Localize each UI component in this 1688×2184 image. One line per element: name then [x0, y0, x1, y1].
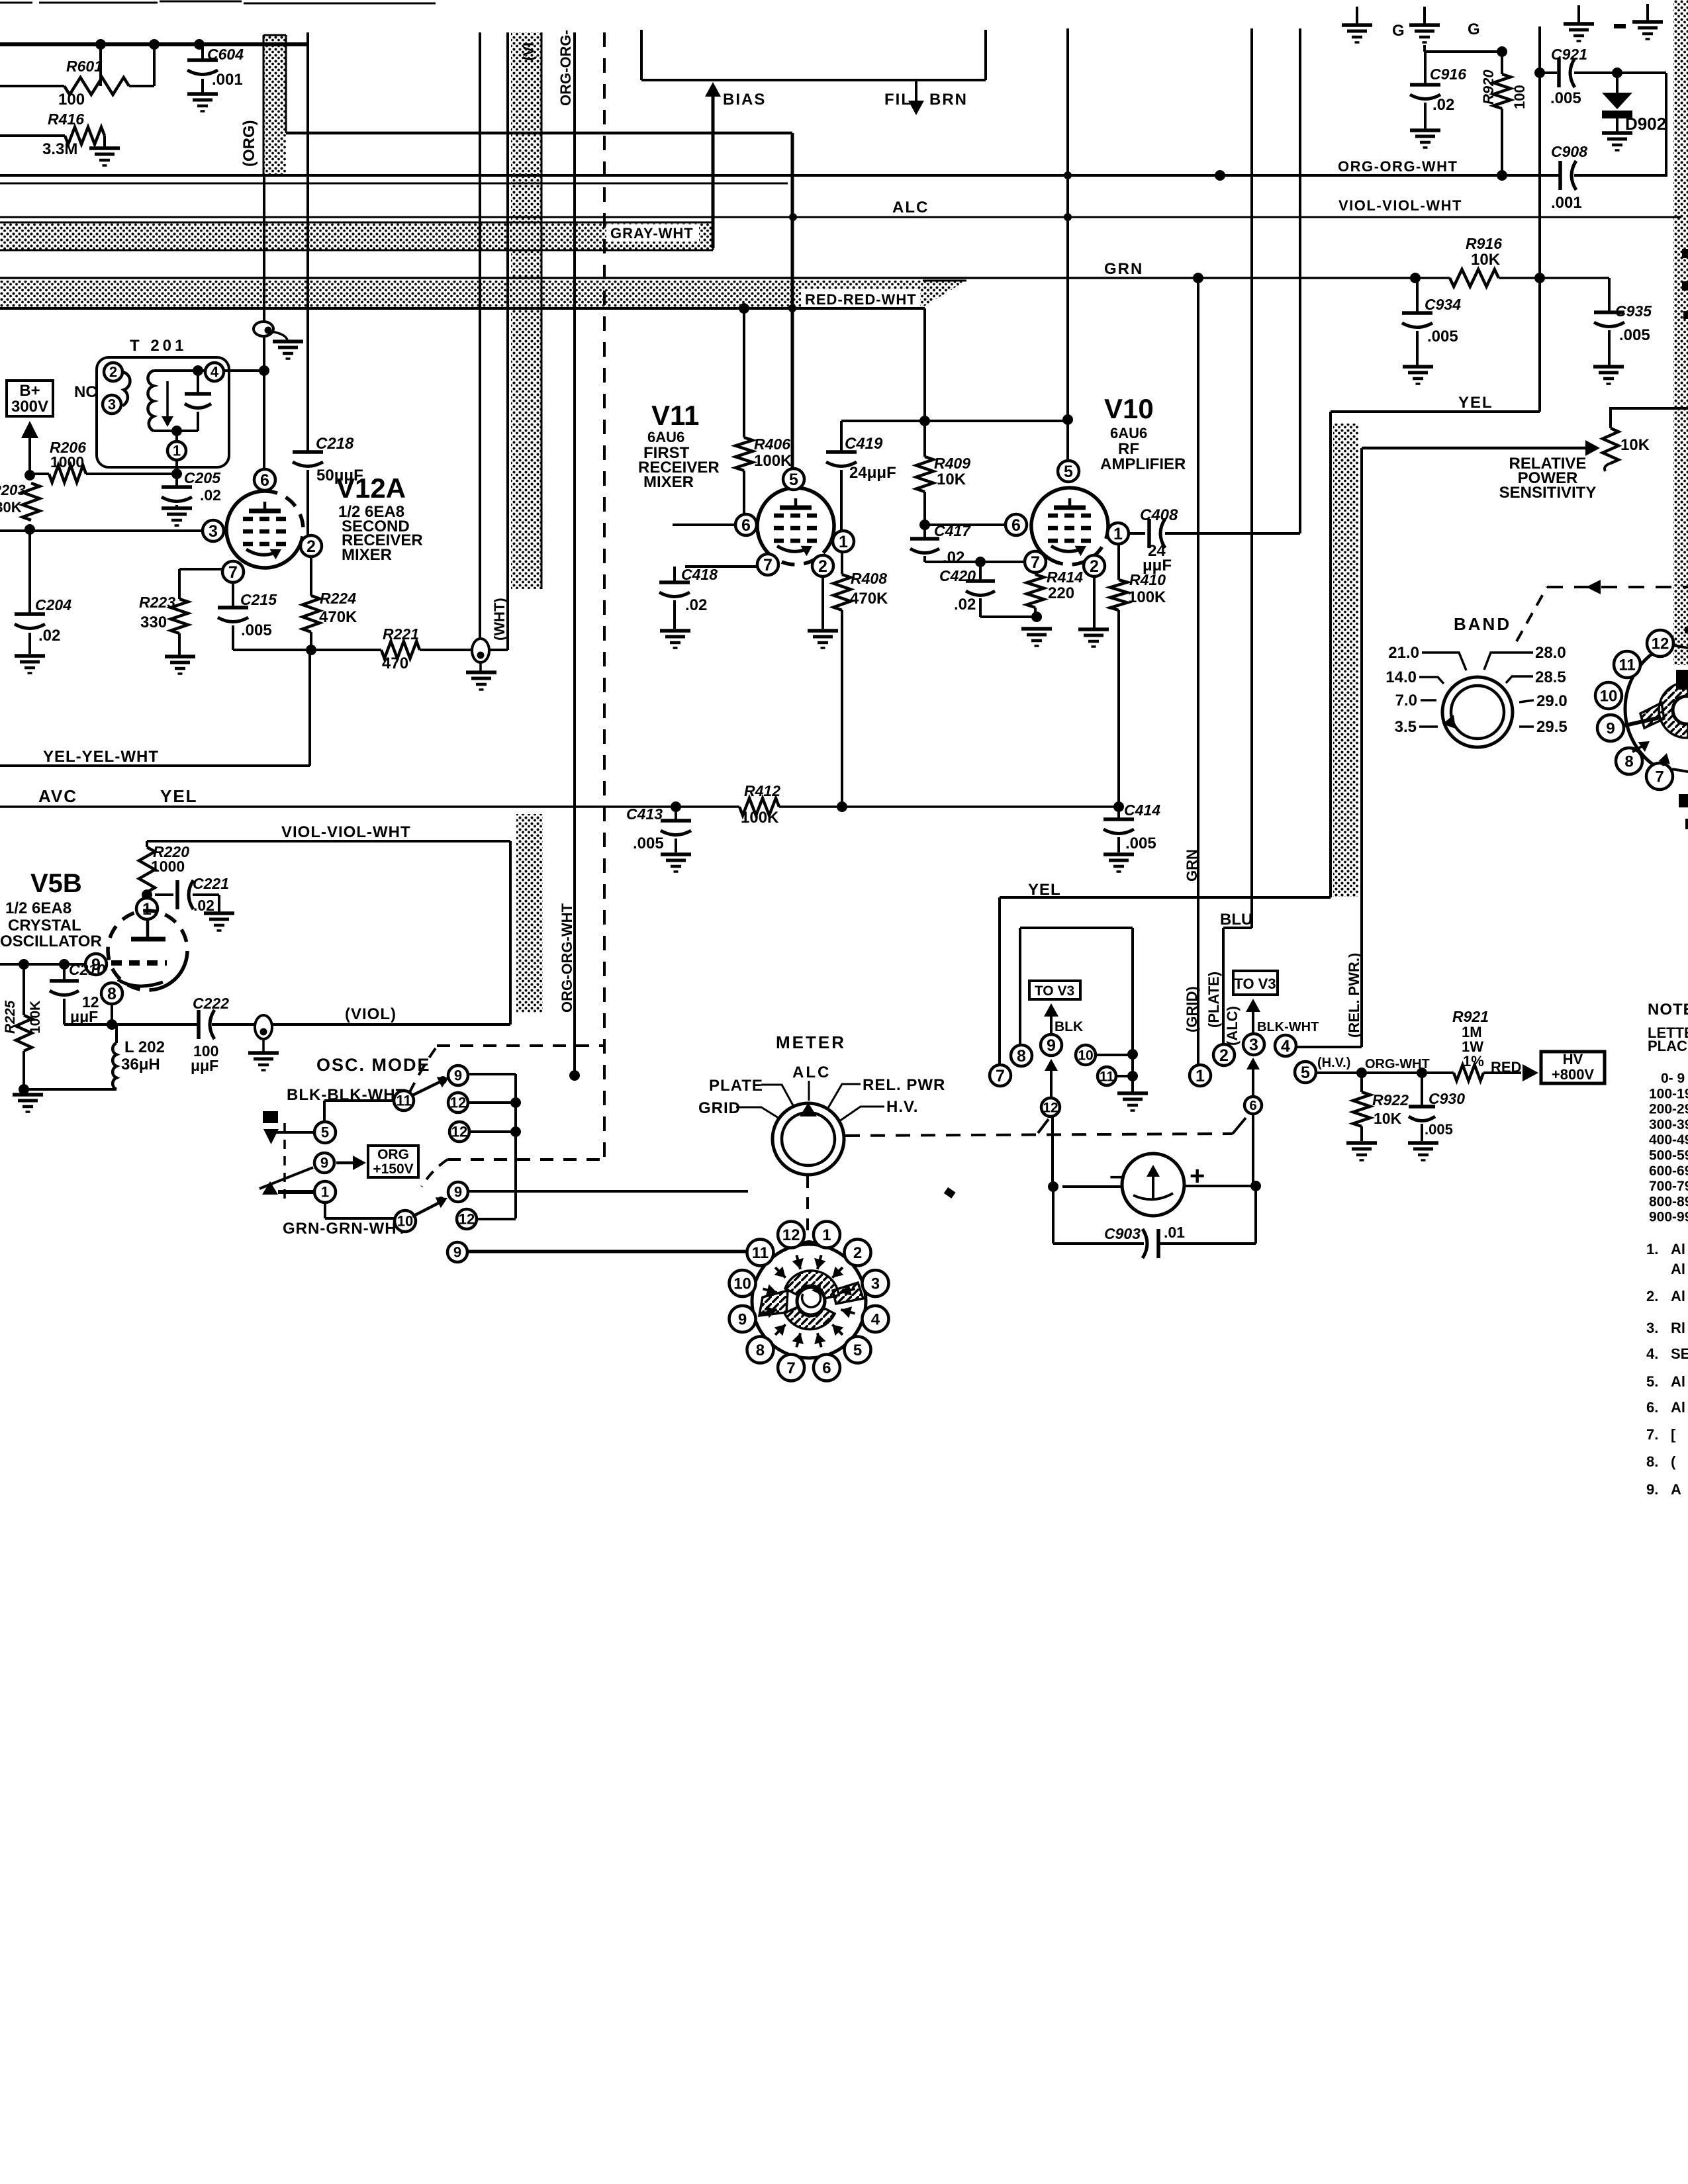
capacitor C930	[1421, 1073, 1423, 1107]
capacitor C414	[1117, 804, 1120, 819]
ground (C418)	[660, 629, 690, 633]
pin 7 (V12A)	[222, 561, 244, 582]
svg-text:D902: D902	[1625, 114, 1666, 134]
svg-text:GRAY-WHT: GRAY-WHT	[610, 225, 694, 242]
tube V5B envelope	[151, 964, 185, 990]
svg-text:12: 12	[451, 1124, 467, 1140]
node junction R203/pin3 wire	[24, 524, 35, 535]
tube V10 envelope	[1031, 488, 1108, 559]
svg-text:Al: Al	[1671, 1261, 1685, 1277]
svg-text:C604: C604	[207, 46, 244, 63]
pin 9 (meter rotary socket)	[729, 1306, 756, 1332]
arrow pin 8 contact	[775, 1324, 786, 1335]
resistor R408	[841, 552, 843, 574]
resistor R416	[0, 134, 65, 137]
pin 4 (crystal socket)	[1275, 1035, 1296, 1056]
pin 6 (meter rotary socket)	[814, 1354, 840, 1381]
svg-text:AMPLIFIER: AMPLIFIER	[1100, 455, 1186, 473]
arrow BIAS	[705, 82, 721, 97]
arrow pot wiper	[1585, 440, 1600, 456]
svg-text:.01: .01	[1164, 1224, 1185, 1241]
wire C420 to R414 ground	[980, 615, 1037, 618]
svg-text:ORG-ORG-: ORG-ORG-	[557, 30, 574, 106]
svg-text:.02: .02	[200, 486, 221, 504]
svg-text:400-49: 400-49	[1649, 1132, 1688, 1148]
mechanical link dashed vertical (crystal)	[283, 1123, 286, 1205]
resistor R220	[146, 841, 148, 847]
wire vertical x=725	[479, 32, 481, 639]
arrow into HV box	[1523, 1064, 1538, 1081]
svg-text:600-69: 600-69	[1649, 1163, 1688, 1179]
svg-text:36μH: 36μH	[121, 1056, 160, 1073]
svg-text:PLATE: PLATE	[709, 1077, 763, 1095]
pin 11 (osc mode)	[394, 1091, 414, 1111]
wire jack to V12A pin6	[263, 177, 265, 322]
wire V12A pin3	[0, 529, 203, 532]
svg-text:500-59: 500-59	[1649, 1148, 1688, 1163]
svg-text:2.: 2.	[1646, 1288, 1658, 1304]
mechanical link dashed vertical x=913	[603, 32, 606, 1158]
arrow pin 9 contact	[763, 1310, 776, 1314]
resistor R203 (page-cut)	[23, 483, 40, 520]
wire riser x=1964	[1299, 28, 1301, 533]
ground (R225/L202)	[13, 1093, 43, 1097]
svg-text:100K: 100K	[754, 452, 792, 470]
ground (C935)	[1593, 365, 1624, 369]
svg-text:C221: C221	[193, 875, 229, 892]
ground (WHT jack)	[466, 670, 496, 674]
pin 10 (meter socket chain)	[1076, 1045, 1096, 1065]
cable harness band (right page edge)	[1673, 0, 1688, 665]
meter knob pointer	[800, 1103, 817, 1116]
potentiometer 10K (REL PWR SENSITIVITY)	[1603, 428, 1618, 463]
arrow to ORG box	[336, 1161, 361, 1165]
svg-text:Rl: Rl	[1671, 1320, 1685, 1336]
wire YEL-YEL-WHT	[0, 764, 310, 767]
wire (PLATE) drop with BLU jog	[1250, 28, 1253, 928]
transformer T201 box	[97, 357, 229, 467]
wire T201 top	[154, 369, 205, 372]
svg-text:9: 9	[320, 1155, 328, 1171]
mechanical link dashes (osc top)	[409, 1048, 436, 1093]
pin 9 (meter socket chain)	[1041, 1034, 1062, 1056]
capacitor C419	[840, 421, 843, 452]
svg-text:(: (	[1671, 1453, 1676, 1470]
capacitor C604	[201, 44, 204, 60]
switch lever triangle	[262, 1181, 278, 1195]
svg-text:.005: .005	[1125, 835, 1156, 852]
resistor R414	[1034, 572, 1037, 574]
wire R409 riser	[923, 308, 926, 421]
resistor R922	[1360, 1073, 1363, 1092]
svg-text:RED-RED-WHT: RED-RED-WHT	[805, 291, 917, 308]
wire pot feed right	[1609, 407, 1688, 410]
pin 10 (meter rotary socket)	[729, 1270, 756, 1297]
svg-text:0- 9: 0- 9	[1661, 1071, 1685, 1086]
svg-text:AVC: AVC	[38, 786, 77, 806]
svg-text:.005: .005	[1427, 328, 1458, 345]
band switch knob	[1442, 677, 1513, 747]
pin 3 (T201)	[103, 395, 121, 414]
terminal box ORG +150V	[368, 1146, 418, 1177]
cable harness band (vertical, REL PWR)	[1333, 424, 1358, 897]
pin 5 (V11)	[783, 469, 804, 490]
svg-text:470K: 470K	[850, 590, 888, 608]
mechanical link dashes (meter)	[845, 1134, 1233, 1136]
pin 9 (osc mode ORG)	[314, 1153, 334, 1173]
svg-text:V5B: V5B	[30, 869, 82, 898]
svg-text:14.0: 14.0	[1385, 668, 1417, 686]
svg-text:9: 9	[1047, 1036, 1056, 1055]
wire pin6 stub (V11)	[673, 523, 735, 526]
inductor L202	[115, 1024, 118, 1043]
wire H.V. line	[1316, 1071, 1454, 1074]
svg-text:ORG-WHT: ORG-WHT	[1365, 1057, 1430, 1071]
svg-text:TO V3: TO V3	[1234, 976, 1276, 992]
svg-text:BIAS: BIAS	[723, 91, 766, 109]
svg-text:GRN-GRN-WHT: GRN-GRN-WHT	[283, 1220, 407, 1238]
svg-text:.02: .02	[943, 549, 964, 567]
svg-text:R203: R203	[0, 482, 26, 498]
svg-text:C921: C921	[1551, 46, 1587, 63]
wire D902 right side	[1665, 73, 1667, 175]
svg-text:8: 8	[756, 1342, 765, 1359]
svg-text:9: 9	[738, 1310, 747, 1328]
ground (top rail 1)	[1356, 7, 1358, 25]
svg-text:ALC: ALC	[892, 199, 929, 216]
rotor wing left	[759, 1291, 788, 1316]
svg-text:1000: 1000	[50, 453, 84, 471]
svg-text:6: 6	[741, 516, 751, 535]
pin 3 (V12A)	[203, 520, 224, 541]
svg-text:CRYSTAL: CRYSTAL	[8, 917, 81, 934]
wire pin12 stub (wafer)	[1673, 645, 1688, 648]
arrow wafer contact 8	[1632, 743, 1648, 752]
arrow pin 5 contact	[832, 1324, 843, 1335]
svg-text:R412: R412	[744, 782, 780, 799]
svg-text:Al: Al	[1671, 1399, 1685, 1416]
svg-text:GRN: GRN	[1184, 849, 1200, 882]
wire V10 pin5 riser	[1066, 28, 1069, 461]
svg-text:9.: 9.	[1646, 1481, 1658, 1498]
svg-text:.02: .02	[193, 897, 214, 914]
wire bus y=277	[0, 183, 788, 185]
pin 9 (osc mode a)	[448, 1066, 468, 1085]
T201 tuning capacitor	[197, 371, 199, 394]
svg-text:+150V: +150V	[373, 1161, 413, 1177]
svg-text:2: 2	[818, 557, 827, 576]
T201 primary coil	[122, 372, 130, 406]
svg-text:(PLATE): (PLATE)	[1205, 972, 1222, 1028]
pin 6 (V10)	[1006, 514, 1027, 535]
ground (V11 pin2)	[808, 629, 838, 633]
svg-text:ORG-ORG-WHT: ORG-ORG-WHT	[1338, 158, 1458, 175]
svg-text:100K: 100K	[741, 809, 779, 827]
svg-text:5: 5	[1301, 1064, 1310, 1082]
diode D902	[1616, 73, 1618, 93]
capacitor C221	[155, 893, 173, 896]
pin 7 (band wafer)	[1646, 763, 1673, 790]
svg-text:R225: R225	[3, 1000, 18, 1034]
wire ORG-ORG-WHT bus	[0, 174, 1561, 177]
svg-text:.005: .005	[633, 835, 664, 852]
svg-text:330: 330	[140, 614, 167, 631]
svg-text:μμF: μμF	[1143, 557, 1172, 574]
svg-text:C215: C215	[240, 591, 277, 608]
mark top edge	[1614, 24, 1626, 28]
svg-text:7: 7	[786, 1359, 795, 1377]
svg-text:R221: R221	[383, 625, 419, 643]
svg-text:(VIOL): (VIOL)	[345, 1005, 397, 1023]
svg-text:7: 7	[1031, 553, 1040, 572]
capacitor C934	[1416, 278, 1419, 313]
svg-text:11: 11	[1100, 1069, 1115, 1084]
svg-text:NC: NC	[74, 383, 97, 401]
wire meter minus	[1062, 1185, 1122, 1188]
svg-text:SENSITIVITY: SENSITIVITY	[1499, 484, 1597, 502]
svg-text:C205: C205	[184, 469, 221, 486]
pin 7 (meter socket chain)	[990, 1065, 1011, 1086]
cable harness band (horizontal, RED-RED-WHT)	[0, 281, 923, 308]
svg-text:FIL: FIL	[884, 91, 912, 109]
svg-text:300V: 300V	[11, 398, 48, 416]
wire B+ bus y=67	[0, 42, 308, 46]
svg-text:2: 2	[306, 537, 316, 556]
resistor R225	[23, 964, 25, 1015]
svg-text:MIXER: MIXER	[643, 473, 694, 491]
wire jack to WHT riser	[489, 649, 508, 651]
svg-text:12: 12	[1043, 1100, 1058, 1115]
wire T201 pin4 to jack line	[224, 369, 264, 372]
resistor R410	[1117, 544, 1120, 580]
svg-text:9: 9	[454, 1068, 462, 1084]
wire 12b stub	[469, 1130, 516, 1133]
svg-text:[: [	[1671, 1426, 1676, 1443]
svg-text:ORG: ORG	[377, 1147, 409, 1162]
svg-text:6AU6: 6AU6	[1110, 425, 1147, 441]
pin 8 (meter rotary socket)	[747, 1337, 773, 1363]
svg-text:10: 10	[1600, 687, 1618, 705]
svg-text:5: 5	[1064, 463, 1073, 481]
wire V11 pin5 riser	[791, 133, 794, 470]
leader lines (band labels)	[1422, 653, 1466, 670]
svg-text:BAND: BAND	[1454, 614, 1511, 634]
tube V5B cathode	[118, 979, 163, 986]
cable harness band (vertical, mid page upper)	[511, 32, 541, 589]
arrow pin 10 contact	[763, 1289, 776, 1293]
rotor wing right	[833, 1283, 863, 1304]
arrow pin 4 contact	[841, 1310, 855, 1314]
capacitor C420	[979, 562, 982, 581]
pin 10 (band wafer)	[1595, 682, 1622, 709]
svg-text:C934: C934	[1425, 296, 1461, 313]
wire YEL (to pin7 socket)	[1331, 410, 1540, 413]
svg-text:C204: C204	[35, 596, 71, 614]
wire pin7 to R223	[179, 568, 222, 570]
wire C903 loop	[1052, 1187, 1055, 1244]
pin 1 (T201)	[167, 441, 186, 460]
wire cathode line y=982	[233, 649, 381, 651]
ground (R416)	[89, 146, 120, 150]
svg-text:B+: B+	[19, 382, 40, 400]
pin 3 (meter rotary socket)	[862, 1270, 888, 1297]
wire GRN bus	[0, 277, 1450, 279]
svg-text:(H.V.): (H.V.)	[1317, 1056, 1350, 1070]
capacitor C935	[1608, 278, 1611, 312]
arrow into pin3 from pin6 lead	[1252, 1062, 1254, 1097]
svg-text:700-79: 700-79	[1649, 1179, 1688, 1194]
svg-text:BLK: BLK	[1055, 1019, 1083, 1034]
svg-text:1: 1	[1113, 525, 1123, 543]
svg-text:1%: 1%	[1463, 1053, 1484, 1069]
svg-text:28.0: 28.0	[1535, 644, 1566, 662]
svg-text:4: 4	[871, 1310, 880, 1328]
svg-text:METER: METER	[776, 1032, 846, 1052]
svg-text:R416: R416	[48, 111, 84, 128]
marks right edge fragments	[1682, 249, 1688, 258]
resistor R224	[310, 557, 312, 596]
svg-text:(REL. PWR.): (REL. PWR.)	[1346, 953, 1362, 1038]
svg-text:R409: R409	[934, 455, 970, 472]
svg-text:6: 6	[1011, 516, 1021, 535]
pin 2 (T201)	[104, 363, 122, 381]
wire drop to R601	[99, 44, 102, 86]
wire 9a to 12b bus	[468, 1073, 516, 1075]
svg-text:V11: V11	[651, 400, 699, 431]
svg-text:1.: 1.	[1646, 1241, 1658, 1257]
svg-text:C935: C935	[1615, 302, 1652, 320]
svg-text:3: 3	[871, 1275, 880, 1293]
capacitor C408	[1147, 519, 1151, 548]
svg-text:GRID: GRID	[698, 1099, 741, 1117]
svg-text:(WHT): (WHT)	[491, 598, 508, 641]
svg-text:R408: R408	[851, 570, 887, 587]
pin 8 (meter socket chain)	[1011, 1045, 1032, 1066]
svg-text:4: 4	[1281, 1037, 1290, 1056]
wire pin4 to REL PWR riser	[1296, 1046, 1362, 1048]
svg-text:VIOL-VIOL-WHT: VIOL-VIOL-WHT	[1338, 197, 1462, 214]
ground (VIOL jack)	[248, 1051, 279, 1055]
pin 9 (V5B)	[85, 954, 107, 975]
svg-text:5: 5	[853, 1342, 862, 1359]
svg-text:BRN: BRN	[929, 91, 968, 109]
wire pin9 (V5B)	[0, 963, 85, 966]
wire pin10 stub	[1096, 1054, 1133, 1056]
arrow pin 11 contact	[775, 1267, 786, 1278]
pin 12 (meter rotary socket)	[778, 1222, 804, 1248]
svg-text:800-89: 800-89	[1649, 1194, 1688, 1209]
svg-text:7.0: 7.0	[1395, 692, 1417, 709]
arrow pin 6 contact	[818, 1333, 821, 1347]
svg-text:R922: R922	[1372, 1091, 1409, 1109]
ground (top rail 4)	[1646, 4, 1649, 22]
wire C921/D902 top	[1540, 71, 1557, 74]
svg-text:.001: .001	[1551, 194, 1582, 212]
arrow pin 2 contact	[832, 1267, 843, 1278]
pin 12 (osc mode a)	[448, 1093, 468, 1113]
svg-text:Al: Al	[1671, 1373, 1685, 1390]
svg-text:V10: V10	[1104, 393, 1154, 424]
svg-text:.005: .005	[1619, 326, 1650, 344]
svg-text:GRN: GRN	[1104, 260, 1143, 278]
ground (C934)	[1403, 365, 1433, 369]
mechanical link dashed (band)	[1517, 587, 1547, 641]
capacitor C921	[1557, 58, 1561, 87]
svg-text:ORG-ORG-WHT: ORG-ORG-WHT	[559, 903, 575, 1013]
svg-text:A: A	[1671, 1481, 1681, 1498]
svg-text:8.: 8.	[1646, 1453, 1658, 1470]
pin 5 (meter rotary socket)	[845, 1337, 871, 1363]
resistor R206	[30, 473, 49, 475]
arrow to TO V3 (meter)	[1050, 1011, 1053, 1034]
crystal symbol square	[263, 1111, 278, 1123]
pin 10 (osc mode)	[395, 1210, 416, 1232]
svg-text:12: 12	[459, 1211, 475, 1228]
svg-text:10K: 10K	[1471, 251, 1501, 269]
svg-text:10K: 10K	[1620, 436, 1650, 454]
capacitor C222	[197, 1010, 201, 1039]
ground (C930)	[1408, 1141, 1438, 1145]
svg-text:REL. PWR: REL. PWR	[863, 1076, 945, 1094]
svg-text:12: 12	[450, 1095, 466, 1111]
svg-text:C419: C419	[845, 435, 883, 453]
svg-text:6: 6	[822, 1359, 831, 1377]
svg-text:12: 12	[1652, 635, 1669, 653]
ground (V10 pin2)	[1078, 627, 1109, 631]
cable harness band (vertical, mid page lower)	[516, 814, 543, 1013]
svg-text:1: 1	[321, 1184, 329, 1201]
svg-text:R920: R920	[1480, 69, 1497, 105]
pin 4 (meter rotary socket)	[862, 1306, 888, 1332]
pin 9 (osc mode b)	[448, 1182, 468, 1202]
band knob pointer	[1442, 715, 1456, 729]
svg-text:7: 7	[228, 563, 238, 582]
resistor R223	[171, 599, 188, 633]
resistor R601	[0, 85, 64, 87]
svg-text:VIOL-VIOL-WHT: VIOL-VIOL-WHT	[281, 823, 411, 841]
pin 5 (crystal socket)	[1295, 1062, 1316, 1083]
svg-text:+800V: +800V	[1552, 1066, 1595, 1083]
capacitor C417	[923, 525, 926, 539]
wire pin6 to meter+	[1252, 1114, 1254, 1186]
svg-text:YEL: YEL	[1458, 394, 1493, 412]
pin 8 (band wafer)	[1616, 748, 1642, 774]
pin 7 (meter rotary socket)	[778, 1354, 804, 1381]
svg-text:H.V.: H.V.	[886, 1098, 918, 1116]
ground (R223)	[165, 655, 195, 659]
svg-text:2: 2	[1090, 557, 1099, 576]
wire cut-off top edge	[0, 2, 32, 4]
tube V5B plate	[131, 937, 165, 942]
svg-text:10: 10	[733, 1275, 751, 1293]
resistor R916	[1450, 269, 1499, 287]
svg-text:C414: C414	[1124, 801, 1160, 819]
svg-text:(ORG): (ORG)	[240, 120, 258, 167]
pin 1 (V5B)	[136, 898, 158, 919]
wire 9c long	[467, 1250, 748, 1253]
switch lever 10-9	[412, 1203, 440, 1216]
wire riser x=2326	[1538, 26, 1541, 412]
svg-text:7: 7	[763, 556, 773, 574]
terminal box TO V3 (ALC)	[1233, 971, 1278, 995]
wafer black segment	[1676, 670, 1688, 690]
mark right edge (wafer label cut)	[1679, 794, 1688, 807]
tube V11 internals	[780, 506, 812, 510]
svg-text:7: 7	[1655, 768, 1664, 786]
svg-text:900-99: 900-99	[1649, 1210, 1688, 1225]
wire pin12 to meter-	[1051, 1116, 1054, 1187]
wire 9b long	[468, 1190, 748, 1193]
